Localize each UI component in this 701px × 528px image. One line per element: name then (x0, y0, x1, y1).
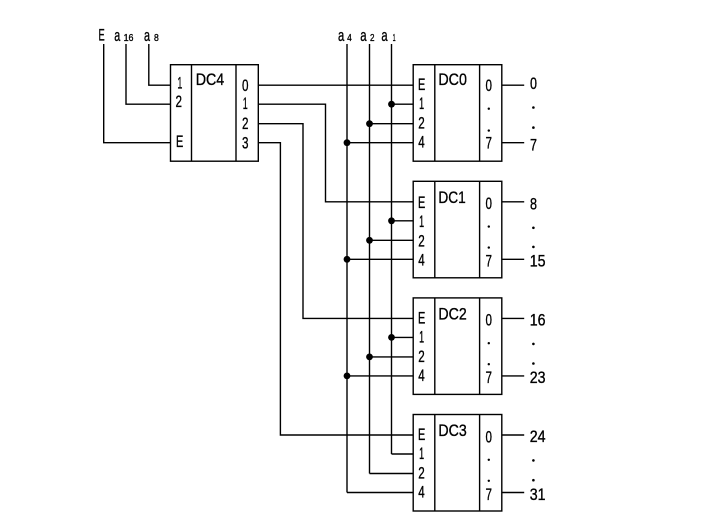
output ellipsis dots DC1 (532, 227, 535, 230)
svg-text:DC2: DC2 (438, 305, 466, 324)
svg-text:0: 0 (530, 75, 537, 93)
wire a1 tap to DC3 pin 1 (392, 453, 414, 455)
decoder DC1 body (413, 181, 502, 277)
svg-text:E: E (418, 193, 425, 212)
junction dot a4 tap DC1 (344, 256, 351, 263)
junction dot a4 tap DC2 (344, 373, 351, 380)
junction dot a4 tap DC0 (344, 139, 351, 146)
svg-text:4: 4 (418, 366, 425, 385)
bus a1 vertical wire (391, 44, 393, 454)
wire a4 tap to DC1 pin 4 (347, 258, 413, 260)
svg-text:0: 0 (242, 76, 249, 95)
svg-text:2: 2 (418, 463, 425, 482)
wire a4 tap to DC0 pin 4 (347, 142, 413, 144)
svg-text:24: 24 (530, 428, 546, 446)
svg-text:E: E (176, 132, 183, 151)
svg-text:DC0: DC0 (438, 70, 467, 89)
wire a1 tap to DC0 pin 1 (392, 103, 414, 105)
svg-text:16: 16 (124, 32, 134, 44)
wire a1 tap to DC1 pin 1 (392, 220, 414, 222)
wire a2 tap to DC2 pin 2 (370, 356, 414, 358)
svg-text:7: 7 (486, 368, 493, 387)
svg-text:a: a (114, 26, 120, 45)
wire DC1 output 7 stub (502, 258, 524, 260)
svg-text:8: 8 (530, 195, 537, 213)
wire DC4 out1 to DC1 pin E (258, 104, 413, 202)
svg-text:31: 31 (530, 486, 546, 504)
svg-text:0: 0 (486, 311, 493, 330)
wire a2 tap to DC3 pin 2 (370, 473, 414, 475)
DC2 output column ellipsis dots (488, 342, 490, 344)
wire DC2 output 7 stub (502, 375, 524, 377)
svg-text:2: 2 (418, 231, 425, 250)
junction dot a1 tap DC1 (388, 217, 395, 224)
output ellipsis dots DC3 (532, 459, 535, 462)
wire DC3 output 0 stub (502, 434, 524, 436)
bus a4 vertical wire (346, 44, 348, 493)
svg-text:1: 1 (243, 94, 248, 113)
svg-text:0: 0 (486, 427, 493, 446)
wire DC0 output 7 stub (502, 142, 524, 144)
wire DC2 output 0 stub (502, 317, 524, 319)
svg-text:a: a (381, 26, 388, 45)
svg-text:4: 4 (418, 250, 425, 269)
svg-text:E: E (418, 75, 425, 94)
svg-text:a: a (360, 26, 367, 45)
junction dot a2 tap DC0 (366, 120, 373, 127)
svg-text:1: 1 (419, 212, 424, 231)
svg-text:1: 1 (419, 444, 424, 463)
svg-text:E: E (418, 309, 425, 328)
wire a1 tap to DC2 pin 1 (392, 336, 414, 338)
svg-text:1: 1 (393, 32, 396, 44)
svg-text:0: 0 (486, 76, 493, 95)
svg-text:a: a (144, 26, 150, 45)
svg-text:2: 2 (418, 114, 425, 133)
svg-text:DC3: DC3 (438, 421, 466, 440)
svg-text:4: 4 (418, 482, 425, 501)
svg-text:7: 7 (486, 134, 493, 153)
svg-text:4: 4 (418, 133, 425, 152)
DC1 output column ellipsis dots (488, 225, 490, 227)
junction dot a2 tap DC1 (366, 237, 373, 244)
wire DC4 out3 to DC3 pin E (258, 143, 413, 435)
svg-text:8: 8 (154, 32, 159, 44)
DC0 output column ellipsis dots (488, 108, 490, 110)
svg-text:2: 2 (418, 347, 425, 366)
wire DC4 out0 to DC0 pin E (258, 84, 413, 86)
wire DC1 output 0 stub (502, 201, 524, 203)
wire a4 tap to DC3 pin 4 (347, 492, 413, 494)
svg-text:7: 7 (530, 136, 537, 154)
svg-text:E: E (418, 425, 425, 444)
junction dot a1 tap DC2 (388, 334, 395, 341)
svg-text:DC4: DC4 (196, 70, 225, 89)
wire a4 tap to DC2 pin 4 (347, 375, 413, 377)
decoder DC3 body (413, 415, 502, 512)
svg-text:16: 16 (530, 312, 546, 330)
svg-text:1: 1 (177, 74, 182, 93)
svg-text:2: 2 (176, 92, 183, 111)
wire DC0 output 0 stub (502, 84, 524, 86)
svg-text:23: 23 (530, 369, 546, 387)
output ellipsis dots DC2 (532, 343, 535, 346)
decoder DC0 body (413, 65, 502, 162)
DC3 output column ellipsis dots (488, 459, 490, 461)
output ellipsis dots DC0 (532, 106, 535, 109)
wire DC3 output 7 stub (502, 492, 524, 494)
svg-text:E: E (99, 26, 105, 45)
wire a2 tap to DC0 pin 2 (370, 123, 414, 125)
wire DC4 out2 to DC2 pin E (258, 124, 413, 319)
svg-text:0: 0 (486, 194, 493, 213)
svg-text:7: 7 (486, 485, 493, 504)
svg-text:1: 1 (419, 94, 424, 113)
wire a8 down to DC4 pin 1 (149, 44, 171, 85)
junction dot a1 tap DC0 (388, 101, 395, 108)
svg-text:15: 15 (530, 253, 546, 271)
svg-text:3: 3 (242, 134, 249, 153)
svg-text:a: a (338, 26, 345, 45)
wire a16 down to DC4 pin 2 (126, 44, 171, 104)
wire a2 tap to DC1 pin 2 (370, 239, 414, 241)
svg-text:DC1: DC1 (438, 188, 465, 207)
junction dot a2 tap DC2 (366, 354, 373, 361)
decoder DC4 body (171, 65, 259, 162)
svg-text:2: 2 (370, 32, 375, 44)
bus a2 vertical wire (369, 44, 371, 474)
svg-text:2: 2 (242, 114, 249, 133)
decoder DC2 body (413, 298, 502, 395)
svg-text:4: 4 (347, 32, 352, 44)
svg-text:7: 7 (486, 252, 493, 271)
svg-text:1: 1 (419, 328, 424, 347)
wire E down to DC4 pin E (104, 44, 171, 143)
